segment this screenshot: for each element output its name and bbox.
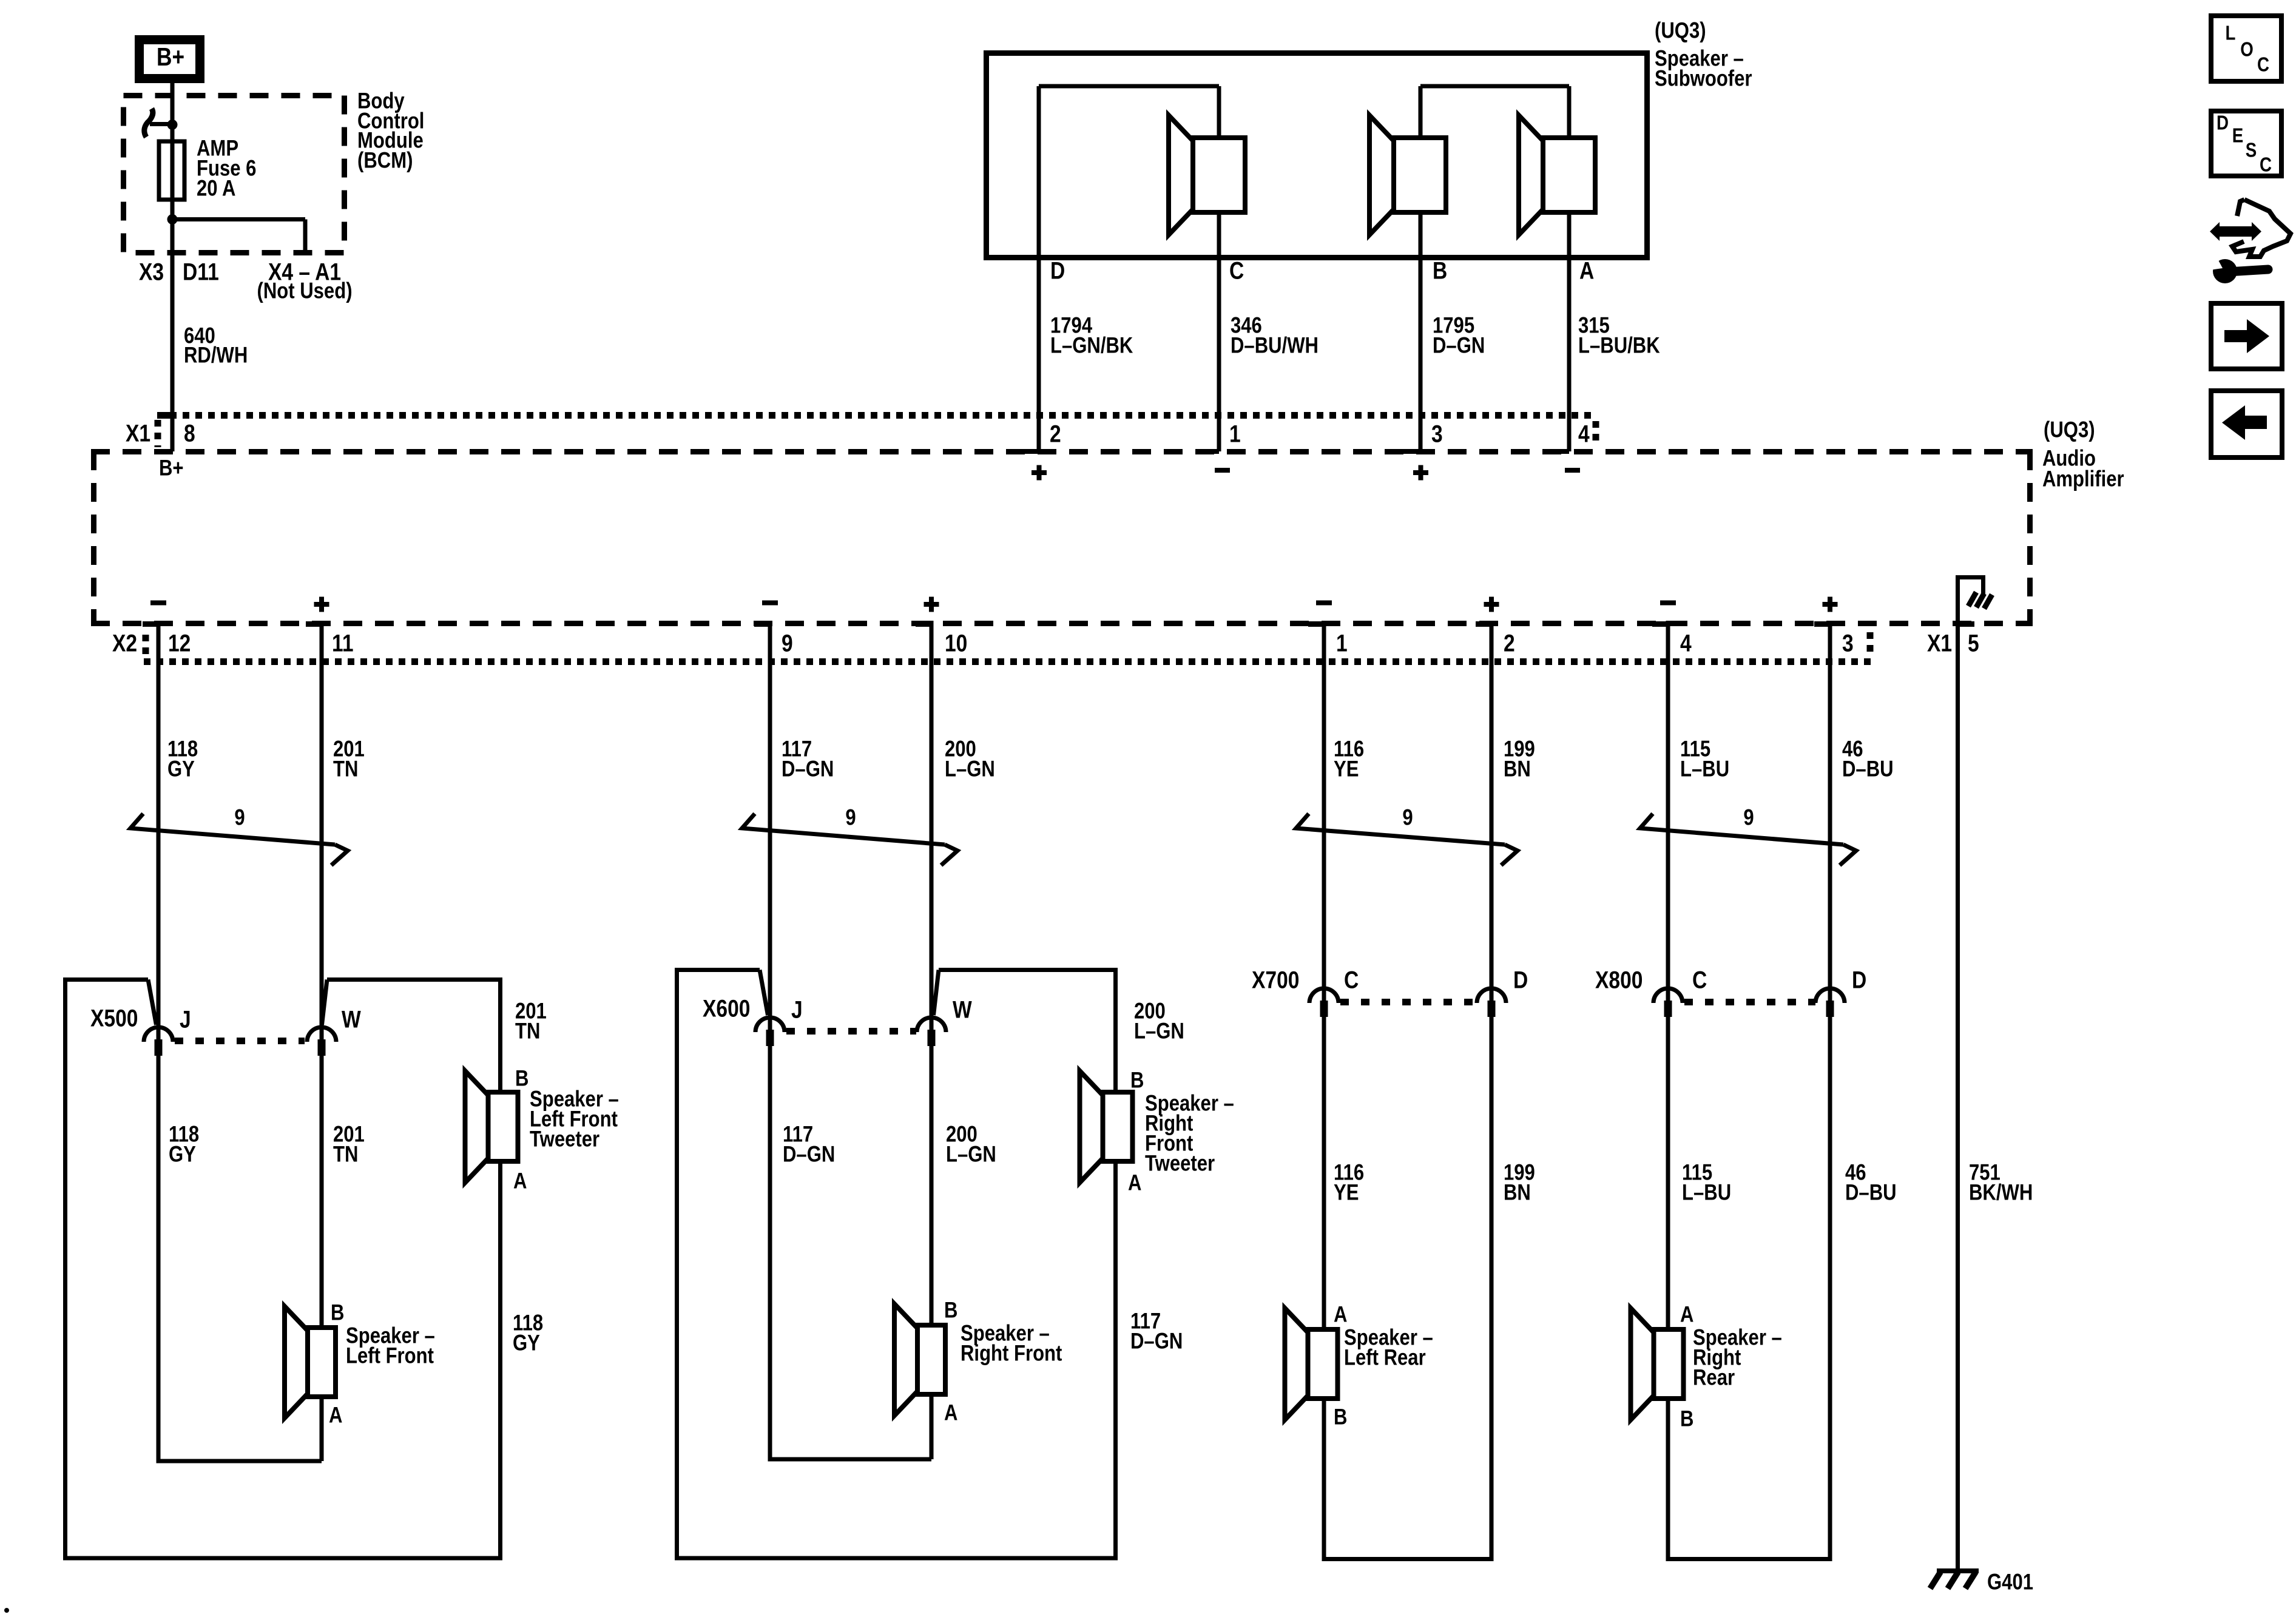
svg-text:D: D — [1050, 257, 1065, 284]
svg-text:A: A — [1334, 1302, 1347, 1327]
wiring repair icon: wrench — [2213, 259, 2237, 283]
right front speaker box outline — [677, 970, 1116, 1559]
svg-text:GY: GY — [513, 1331, 540, 1355]
svg-text:Rear: Rear — [1693, 1365, 1735, 1390]
svg-text:1: 1 — [1229, 420, 1241, 447]
wiring repair icon: hand outline — [2232, 200, 2291, 257]
svg-text:(UQ3): (UQ3) — [2044, 417, 2095, 442]
harness splice mark 9 (right rear pair) — [1640, 814, 1843, 845]
speaker - right rear — [1631, 1308, 1654, 1420]
svg-text:C: C — [2257, 53, 2269, 76]
speaker - right front tweeter — [1080, 1071, 1103, 1183]
wire: right rear speaker return — [1668, 1557, 1830, 1561]
svg-text:L–BU: L–BU — [1682, 1180, 1731, 1205]
wire: subwoofer speaker C drop, circuit 346 — [1217, 86, 1221, 451]
svg-text:S: S — [2246, 139, 2257, 161]
wire: stub to X4-A1 (not used) — [172, 217, 305, 221]
wire: circuit 116 YE left rear - — [1322, 621, 1326, 1561]
harness splice mark 9 (left rear pair) — [1296, 814, 1505, 845]
svg-text:X700: X700 — [1252, 967, 1299, 993]
svg-text:YE: YE — [1334, 757, 1359, 781]
connector X600 dashed line — [786, 1028, 916, 1035]
svg-text:12: 12 — [168, 630, 191, 657]
svg-text:4: 4 — [1578, 420, 1590, 447]
svg-text:9: 9 — [845, 805, 856, 830]
power symbol B+ box — [140, 40, 200, 79]
svg-text:2: 2 — [1050, 420, 1061, 447]
speaker - left front tweeter — [465, 1071, 488, 1183]
polarity signs above X2 row — [150, 601, 166, 606]
svg-text:B: B — [1433, 257, 1447, 284]
LOC icon box — [2211, 16, 2281, 81]
connector X600 terminal J — [755, 1018, 785, 1032]
connector X500 terminal J — [144, 1027, 173, 1042]
svg-text:D–BU: D–BU — [1845, 1180, 1897, 1205]
wire: circuit 199 BN left rear + — [1490, 621, 1494, 1561]
polarity signs below X1 row — [1032, 470, 1047, 475]
svg-text:D: D — [2217, 112, 2229, 134]
svg-text:X500: X500 — [90, 1005, 138, 1031]
svg-text:B: B — [1334, 1405, 1347, 1430]
connector X500 terminal W — [307, 1027, 336, 1042]
svg-text:(Not Used): (Not Used) — [257, 279, 352, 303]
svg-text:D11: D11 — [183, 258, 219, 285]
svg-text:9: 9 — [782, 630, 793, 657]
wire: subwoofer pin B circuit 1795, jumper loop — [1419, 86, 1423, 451]
svg-text:D–GN: D–GN — [783, 1142, 835, 1167]
svg-text:E: E — [2232, 124, 2243, 147]
fuse element hook symbol — [144, 109, 153, 137]
svg-text:B: B — [515, 1066, 528, 1091]
svg-text:X1: X1 — [126, 420, 150, 447]
svg-text:O: O — [2240, 38, 2254, 61]
ground G401 symbol — [1937, 1568, 1979, 1573]
left front speaker box outline — [66, 980, 501, 1559]
fuse AMP Fuse 6 20 A — [159, 141, 184, 200]
svg-text:1: 1 — [1336, 630, 1348, 657]
svg-text:L–GN/BK: L–GN/BK — [1050, 333, 1133, 358]
connector X2 right tick — [1867, 632, 1874, 654]
svg-text:10: 10 — [945, 630, 967, 657]
back arrow icon box — [2211, 391, 2282, 457]
svg-text:X2: X2 — [112, 630, 137, 657]
connector X800 terminal D — [1815, 988, 1845, 1003]
speaker - left front — [285, 1306, 308, 1418]
connector X700 dashed line — [1340, 999, 1474, 1005]
junction node above fuse — [167, 120, 178, 130]
svg-text:5: 5 — [1968, 630, 1979, 657]
forward arrow icon box — [2211, 303, 2282, 369]
svg-text:B: B — [1680, 1406, 1693, 1431]
svg-text:D–BU: D–BU — [1842, 757, 1894, 781]
svg-text:RD/WH: RD/WH — [184, 343, 248, 368]
DESC icon box — [2211, 111, 2281, 176]
ground symbol inside amplifier — [1956, 575, 1960, 626]
svg-text:D–GN: D–GN — [1433, 333, 1485, 358]
harness splice mark 9 (right front pair) — [742, 814, 945, 845]
connector X600 terminal W — [917, 1018, 946, 1032]
svg-text:BK/WH: BK/WH — [1969, 1180, 2033, 1205]
wire: circuit 118 GY left front - — [157, 621, 161, 1463]
wire: hook tap to fuse node — [150, 122, 172, 126]
svg-text:Amplifier: Amplifier — [2042, 467, 2124, 491]
wire: battery feed from B+ to BCM fuse, circuit 640 — [171, 82, 175, 451]
svg-text:(BCM): (BCM) — [357, 148, 413, 173]
wire: circuit 117 D-GN right front - — [768, 621, 772, 1462]
svg-text:A: A — [1680, 1302, 1693, 1327]
svg-text:3: 3 — [1842, 630, 1854, 657]
svg-text:L–BU/BK: L–BU/BK — [1578, 333, 1660, 358]
subwoofer speaker C — [1169, 115, 1193, 235]
funnel slant at J entry — [760, 970, 768, 1016]
svg-text:L–GN: L–GN — [946, 1142, 996, 1167]
svg-text:D–BU/WH: D–BU/WH — [1231, 333, 1319, 358]
svg-text:GY: GY — [169, 1142, 196, 1167]
svg-text:D: D — [1513, 967, 1528, 993]
svg-text:X3: X3 — [139, 258, 164, 285]
svg-text:X600: X600 — [703, 995, 750, 1022]
svg-text:C: C — [1692, 967, 1707, 993]
pin 8 tick — [161, 412, 172, 419]
svg-text:L–GN: L–GN — [945, 757, 995, 781]
pin ticks at amplifier top edge — [1019, 449, 1039, 454]
svg-text:G401: G401 — [1987, 1570, 2033, 1595]
svg-text:GY: GY — [167, 757, 195, 781]
harness splice mark 9 (left front pair) — [130, 814, 335, 845]
wire: circuit 751 BK/WH ground — [1956, 626, 1960, 1571]
svg-text:BN: BN — [1504, 1180, 1531, 1205]
svg-text:B: B — [331, 1300, 344, 1325]
svg-text:B: B — [944, 1298, 957, 1323]
svg-text:C: C — [2260, 154, 2272, 176]
wire: left front speaker return — [158, 1459, 322, 1463]
wire: circuit 200 L-GN right front + — [930, 621, 934, 1459]
svg-text:A: A — [329, 1403, 342, 1428]
svg-text:9: 9 — [1402, 805, 1413, 830]
svg-text:(UQ3): (UQ3) — [1655, 18, 1706, 43]
connector X1 left tick — [155, 420, 161, 447]
wire: subwoofer pin D circuit 1794, with jumper loop — [1037, 86, 1041, 451]
svg-text:A: A — [1128, 1170, 1141, 1195]
connector X2 line (dotted) — [144, 658, 1872, 665]
svg-text:TN: TN — [515, 1019, 540, 1044]
wire: right front speaker return — [770, 1457, 931, 1462]
speaker - right front — [894, 1304, 917, 1416]
svg-text:A: A — [1579, 257, 1594, 284]
connector X2 left tick — [143, 635, 149, 657]
connector X1 right tick — [1593, 421, 1599, 445]
svg-text:X1: X1 — [1927, 630, 1952, 657]
page artifact dot — [4, 1608, 9, 1613]
wire: circuit 46 D-BU right rear + — [1828, 621, 1832, 1561]
funnel slant at J entry — [148, 980, 157, 1025]
svg-text:D–GN: D–GN — [782, 757, 834, 781]
svg-text:2: 2 — [1504, 630, 1515, 657]
svg-text:D–GN: D–GN — [1130, 1329, 1183, 1354]
svg-text:TN: TN — [333, 1142, 358, 1167]
funnel slant at W entry — [322, 980, 328, 1025]
speaker - left rear — [1285, 1308, 1308, 1420]
wire: circuit 201 TN left front + — [320, 621, 324, 1461]
connector X1 line (dotted) — [157, 412, 1595, 419]
svg-text:B+: B+ — [157, 43, 184, 72]
svg-text:B: B — [1130, 1068, 1144, 1093]
funnel slant at W entry — [934, 970, 939, 1016]
svg-text:C: C — [1229, 257, 1244, 284]
svg-text:9: 9 — [1743, 805, 1754, 830]
svg-text:11: 11 — [332, 630, 354, 657]
svg-text:L–BU: L–BU — [1680, 757, 1729, 781]
subwoofer speaker A — [1519, 115, 1543, 235]
svg-text:Tweeter: Tweeter — [530, 1127, 599, 1152]
wire: subwoofer speaker A drop, circuit 315 — [1567, 86, 1572, 451]
svg-text:Tweeter: Tweeter — [1145, 1151, 1215, 1176]
wire: circuit 115 L-BU right rear - — [1666, 621, 1670, 1561]
svg-text:4: 4 — [1680, 630, 1692, 657]
svg-text:A: A — [944, 1400, 957, 1425]
svg-text:A: A — [513, 1169, 527, 1193]
connector X800 dashed line — [1684, 999, 1815, 1005]
svg-text:D: D — [1852, 967, 1866, 993]
subwoofer speaker B — [1369, 115, 1394, 235]
svg-text:J: J — [180, 1006, 191, 1033]
audio amplifier dashed outline — [91, 449, 2033, 454]
svg-text:YE: YE — [1334, 1180, 1359, 1205]
svg-text:L–GN: L–GN — [1134, 1019, 1184, 1044]
svg-text:W: W — [342, 1006, 361, 1033]
svg-text:Right Front: Right Front — [961, 1341, 1062, 1366]
svg-text:8: 8 — [184, 420, 195, 447]
pin ticks at amplifier bottom edge — [143, 621, 158, 627]
connector X700 terminal D — [1477, 988, 1506, 1003]
svg-text:Left Front: Left Front — [346, 1343, 434, 1368]
svg-text:J: J — [791, 996, 803, 1023]
svg-text:3: 3 — [1431, 420, 1443, 447]
svg-text:TN: TN — [333, 757, 358, 781]
svg-text:B+: B+ — [159, 456, 184, 481]
svg-text:BN: BN — [1504, 757, 1531, 781]
wire: left rear speaker return — [1324, 1557, 1491, 1561]
junction node below fuse — [167, 214, 178, 224]
svg-text:L: L — [2226, 22, 2236, 44]
svg-text:Subwoofer: Subwoofer — [1655, 66, 1752, 91]
wiring repair icon: double arrow — [2210, 222, 2261, 241]
pin 5 tick — [1957, 621, 1974, 627]
svg-text:C: C — [1344, 967, 1359, 993]
svg-text:X800: X800 — [1595, 967, 1643, 993]
connector X800 terminal C — [1653, 988, 1683, 1003]
Body Control Module (BCM) dashed outline — [124, 96, 345, 253]
connector X500 dashed line — [175, 1038, 305, 1044]
svg-text:W: W — [953, 996, 972, 1023]
svg-text:9: 9 — [234, 805, 245, 830]
connector X700 terminal C — [1309, 988, 1339, 1003]
svg-text:20 A: 20 A — [197, 176, 235, 201]
speaker - subwoofer enclosure box — [987, 53, 1647, 258]
svg-text:Left Rear: Left Rear — [1344, 1345, 1426, 1370]
